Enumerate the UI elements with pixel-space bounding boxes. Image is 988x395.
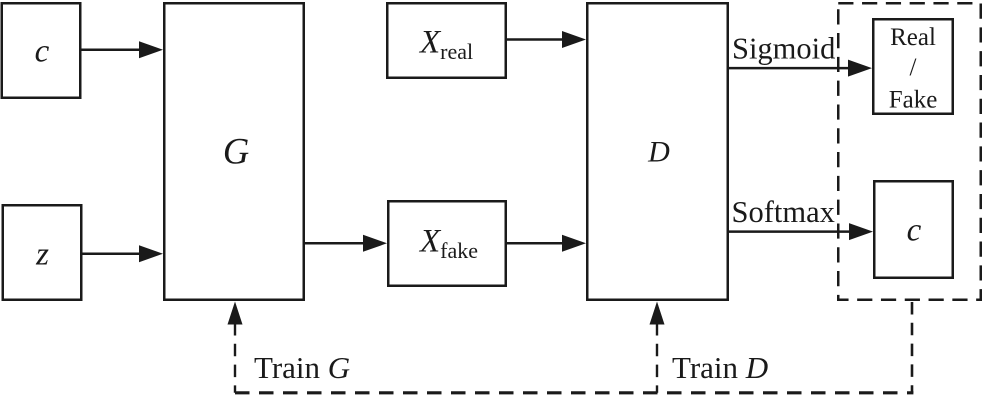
dashed train-G feedback arrow into G bottom xyxy=(228,302,243,393)
dashed feedback bus horizontal xyxy=(235,391,913,394)
box Xreal xyxy=(387,3,506,78)
svg-text:Softmax: Softmax xyxy=(732,195,835,229)
block G (generator) xyxy=(164,3,304,300)
svg-text:D: D xyxy=(647,135,670,168)
dashed output box xyxy=(838,3,981,300)
box Xfake xyxy=(388,201,506,286)
dashed train-D feedback arrow into D bottom xyxy=(650,302,665,393)
wire D to c (softmax output) xyxy=(729,223,873,240)
svg-text:z: z xyxy=(35,237,49,273)
block D (discriminator) xyxy=(587,3,728,300)
box Real/Fake xyxy=(873,19,953,114)
wire D to Real/Fake (sigmoid output) xyxy=(729,60,872,77)
wire G to Xfake xyxy=(305,235,387,252)
wire Xreal to D xyxy=(507,31,586,48)
svg-text:Real: Real xyxy=(890,24,936,51)
svg-text:G: G xyxy=(223,131,249,172)
wire c to G xyxy=(81,41,163,58)
wire Xfake to D xyxy=(507,235,586,252)
box z (input noise) xyxy=(3,205,82,300)
svg-text:Train D: Train D xyxy=(672,350,768,385)
svg-text:c: c xyxy=(35,34,50,70)
box c (input latent class) xyxy=(2,3,81,98)
wire z to G xyxy=(82,245,163,262)
svg-text:/: / xyxy=(910,54,917,81)
dashed feedback vertical from output box xyxy=(911,302,914,393)
box c (output class) xyxy=(874,181,953,278)
svg-text:Train G: Train G xyxy=(254,350,350,385)
svg-text:c: c xyxy=(907,213,922,249)
svg-text:Sigmoid: Sigmoid xyxy=(732,32,835,66)
svg-text:Fake: Fake xyxy=(889,87,938,114)
